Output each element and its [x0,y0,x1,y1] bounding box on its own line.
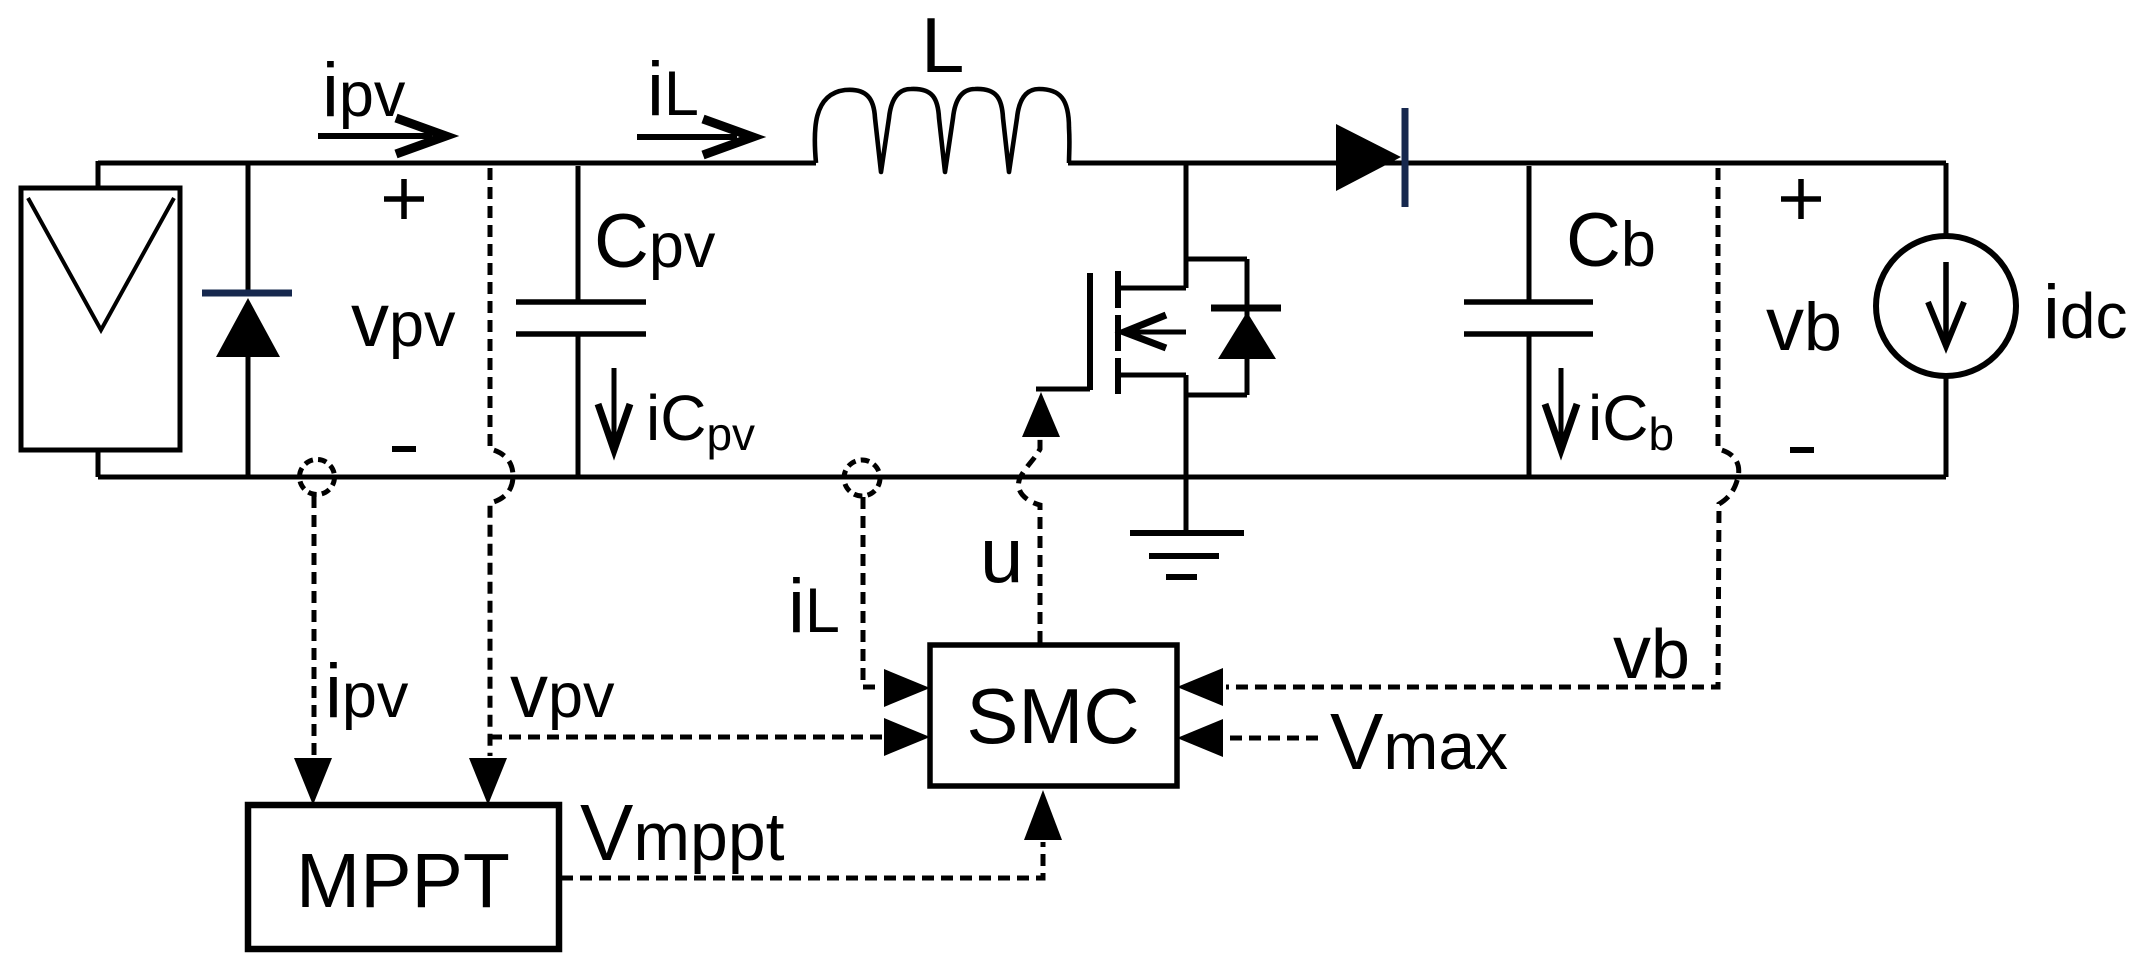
current arrow iCb [1545,368,1577,450]
arrowhead iL into SMC [884,669,930,707]
controller SMC box [930,645,1177,786]
dashed line vpv to SMC [490,735,882,740]
inductor L [815,89,1070,172]
svg-text:Cb: Cb [1566,198,1656,283]
svg-text:iL: iL [788,564,840,649]
svg-text:idc: idc [2043,270,2127,355]
wire top rail right segment [1068,161,1946,166]
arrowhead Vmax into SMC [1177,719,1223,757]
arrowhead vb into SMC [1177,668,1223,706]
svg-text:ipv: ipv [322,48,406,133]
svg-text:iCb: iCb [1588,382,1674,460]
svg-text:MPPT: MPPT [296,838,510,924]
sense point ipv (dashed circle) [300,460,335,495]
svg-text:u: u [980,511,1023,599]
capacitor Cpv [516,166,646,477]
capacitor Cb [1464,166,1593,477]
dashed line Vmppt from MPPT to SMC [561,842,1043,878]
dashed line vpv from top rail with hop [490,168,513,756]
wire top rail left segment [98,161,816,166]
label - (vpv polarity) [392,446,416,452]
svg-text:vpv: vpv [510,649,615,734]
dashed line ipv to MPPT [312,496,317,756]
current source idc [1876,163,2016,477]
dashed line Vmax into SMC [1226,736,1318,741]
current arrow iL [637,119,753,155]
arrowhead u into gate [1022,392,1060,437]
svg-text:vb: vb [1613,610,1690,695]
body diode of Q1 [1186,259,1281,395]
dashed line u from SMC to gate with hop [1018,438,1040,643]
svg-text:L: L [921,1,964,89]
svg-text:SMC: SMC [966,672,1139,760]
label + (vb polarity) [1781,179,1821,219]
svg-text:iL: iL [647,47,699,132]
diode D2 (boost output) [1336,108,1405,207]
svg-text:vpv: vpv [351,278,456,363]
svg-text:Vmppt: Vmppt [580,788,785,877]
svg-text:Vmax: Vmax [1330,697,1508,786]
dashed line iL to SMC [863,497,882,687]
sense point iL (dashed circle) [844,460,880,496]
ground [1130,477,1244,577]
label + (vpv polarity) [384,179,424,219]
svg-text:ipv: ipv [325,649,409,734]
wire bottom rail [98,475,1946,480]
solar PV module [21,161,180,477]
svg-text:Cpv: Cpv [594,199,716,284]
svg-text:iCpv: iCpv [646,382,755,460]
arrowhead Vmppt into SMC [1024,790,1062,840]
transistor Q1 (MOSFET) [1036,163,1186,477]
arrowhead vpv into SMC [884,718,930,756]
arrowhead ipv into MPPT [294,758,332,805]
current arrow iCpv [598,368,630,450]
arrowhead vpv into MPPT [469,758,507,805]
svg-text:vb: vb [1766,282,1842,367]
dashed line vb from top rail to SMC with hop [1226,168,1739,687]
label - (vb polarity) [1790,447,1814,453]
current arrow ipv [318,118,446,154]
controller MPPT box [248,805,559,949]
diode D1 (PV anti-parallel) [202,163,292,477]
